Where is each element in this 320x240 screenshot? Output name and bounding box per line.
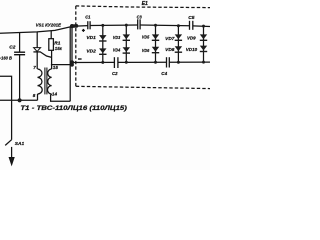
transformer T1 secondary winding [48,69,52,94]
dashed box E1 bottom edge [76,86,210,88]
node col2 bottom [125,61,128,64]
node col4 top [177,24,180,27]
svg-text:С3: С3 [137,14,143,19]
thyristor VS1 [36,32,38,48]
svg-text:VD7: VD7 [165,36,175,41]
capacitor C4 plates [166,57,168,67]
svg-text:VD6: VD6 [142,48,150,53]
svg-text:VD10: VD10 [186,47,198,52]
capacitor C2 lower lead [19,55,21,101]
diode VD6 [152,47,159,54]
node col3 bottom [154,61,157,64]
node box edge [75,24,79,28]
capacitor C2 plates [14,51,25,53]
capacitor C3 plates [137,19,139,29]
node col4 bottom [177,61,180,64]
svg-text:С1: С1 [85,15,91,20]
node col1 top [101,24,104,27]
svg-text:VD1: VD1 [86,35,96,40]
svg-text:15: 15 [53,65,59,70]
svg-text:VD2: VD2 [86,49,96,54]
svg-text:С4: С4 [161,71,167,76]
diode VD8 [175,46,182,53]
diode VD5 [152,34,159,41]
diode VD7 [175,34,182,41]
resistor R1 [49,39,54,51]
node C2 bottom [18,98,22,102]
wire pin 8 to bottom [37,94,39,100]
node bottom bus input [70,60,74,64]
svg-text:8: 8 [33,93,36,98]
dashed box E1 left edge [75,6,77,86]
svg-text:Е1: Е1 [142,1,148,7]
svg-text:VD3: VD3 [113,35,121,40]
svg-text:VD4: VD4 [113,48,121,53]
wire vertical from top wire corner down to pin14 net [69,27,71,101]
node pin15 junction [70,63,74,67]
diode VD1 [99,35,106,42]
diode VD9 [200,34,207,41]
node col5 bottom [202,61,205,64]
svg-text:~160 В: ~160 В [0,55,12,61]
node col5 top [202,25,205,28]
diode VD3 [123,34,130,41]
wire diode column 5 [203,26,205,62]
node top wire input [70,24,74,28]
node col3 top [154,24,157,27]
capacitor C1 plates [87,21,89,29]
wire left edge L to switch [0,76,12,140]
transformer T1 primary winding [38,69,43,94]
svg-text:15к: 15к [55,46,62,52]
dashed box E1 top edge [76,6,210,8]
wire bottom bus segment input to C2 [72,61,114,63]
svg-text:R1: R1 [54,40,60,46]
wire top bus segment C5 to edge [193,25,210,28]
svg-text:7: 7 [33,65,36,70]
svg-text:SA1: SA1 [15,141,25,147]
svg-text:14: 14 [52,92,58,97]
capacitor C2 internal plates [113,57,115,68]
transformer T1 core [44,68,46,95]
diode VD2 [99,48,106,55]
wire diode column 1 [102,25,104,62]
node junction dots [18,24,206,103]
diode VD10 [200,46,207,53]
node col1 bottom [101,61,104,64]
wire top bus segment C1 to C3 [90,24,138,27]
wire diode column 3 [155,25,157,62]
svg-text:Т1 - ТВС-110ЛЦ16 (110ЛЦ15): Т1 - ТВС-110ЛЦ16 (110ЛЦ15) [20,105,127,112]
wire top bus segment C3 to C5 [140,24,189,27]
wire pin 15 to input vertical [51,64,72,66]
svg-text:С2: С2 [112,71,118,76]
wire bottom left mains return [0,99,38,101]
wire diode column 4 [177,26,179,63]
svg-text:C2: C2 [9,44,15,50]
minus terminal mark [78,58,82,60]
svg-text:VD9: VD9 [187,35,196,40]
capacitor C2 mains branch upper lead [19,32,21,51]
wire vertical multiplier input stub [71,26,73,65]
capacitor C5 plates [189,21,191,30]
wire diode column 2 [125,25,127,62]
svg-text:VS1 КУ201Е: VS1 КУ201Е [36,22,62,28]
wire top mains line [0,26,88,34]
plus terminal mark [82,29,85,31]
switch SA1 [5,140,11,146]
svg-text:VD8: VD8 [165,47,175,52]
diode VD4 [123,47,130,54]
svg-text:VD5: VD5 [142,35,150,40]
wire bottom bus segment C4 to edge [169,61,210,63]
node col2 top [125,24,128,27]
svg-text:С5: С5 [188,15,195,20]
wire bottom bus segment C2 to C4 [118,61,167,63]
wire pin 14 to input vertical [51,94,71,101]
